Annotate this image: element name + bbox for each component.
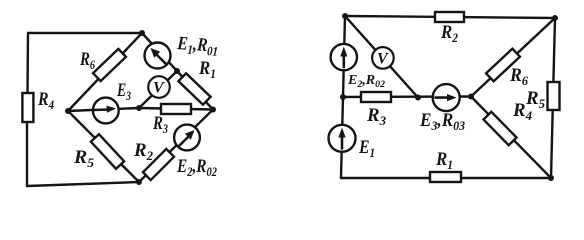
- wire bottom vertex B to right vertex through R2 and E2: [139, 110, 213, 183]
- svg-text:R1: R1: [435, 149, 453, 172]
- resistor R6 (right): [486, 49, 520, 82]
- node C: [136, 105, 142, 111]
- source E3 (left): [93, 98, 119, 124]
- wire diagonal N to bottom-right through R4: [471, 97, 551, 179]
- resistor R6: [93, 49, 126, 81]
- wire node C to right vertex through R3: [139, 108, 213, 110]
- wire right-circuit bottom: [341, 177, 551, 179]
- wire junction J to right vertex through R1: [177, 71, 213, 110]
- resistor R2 (right): [435, 12, 464, 22]
- source E1 (right): [329, 125, 356, 152]
- svg-text:E3: E3: [116, 80, 131, 103]
- svg-text:R2: R2: [440, 22, 458, 45]
- svg-text:R3: R3: [152, 113, 168, 136]
- node T: [139, 30, 145, 36]
- node TL (right circuit): [342, 13, 348, 19]
- svg-text:E1: E1: [358, 137, 375, 160]
- resistor R3 (right): [361, 92, 391, 102]
- svg-text:R3: R3: [366, 105, 386, 128]
- svg-text:R1: R1: [198, 58, 216, 81]
- svg-text:E1,R01: E1,R01: [176, 33, 219, 59]
- svg-text:R2: R2: [133, 140, 153, 163]
- wire left vertex L to node C: [68, 108, 139, 111]
- resistor R5: [91, 134, 124, 169]
- resistor R2: [143, 149, 174, 180]
- wire left-circuit left edge: [27, 33, 28, 186]
- wire right-circuit top: [345, 16, 555, 18]
- svg-text:R4: R4: [37, 89, 54, 112]
- svg-text:E3,R03: E3,R03: [419, 110, 465, 133]
- source E2,R02 (right): [331, 44, 357, 70]
- svg-text:E2,R02: E2,R02: [347, 72, 385, 90]
- wire diagonal TL to M through voltmeter: [345, 16, 418, 98]
- voltmeter V (left): [148, 76, 170, 98]
- node N: [468, 94, 474, 100]
- node L: [65, 108, 71, 114]
- node P: [340, 94, 346, 100]
- svg-text:E2,R02: E2,R02: [176, 156, 217, 179]
- node R (right vertex): [210, 107, 216, 113]
- wire left vertex L to bottom vertex B through R5: [68, 111, 139, 182]
- svg-text:V: V: [377, 51, 389, 68]
- resistor R3: [161, 104, 191, 114]
- svg-text:V: V: [153, 80, 165, 97]
- node M: [415, 95, 421, 101]
- wire left vertex L to node T through R6: [68, 33, 142, 111]
- node B: [136, 179, 142, 185]
- node J: [174, 68, 180, 74]
- source E3,R03 (right): [433, 84, 460, 111]
- node BR: [548, 175, 554, 181]
- wire right-circuit left edge: [341, 16, 345, 178]
- source E2,R02 (left): [174, 125, 200, 151]
- svg-text:R6: R6: [509, 65, 528, 88]
- svg-text:R6: R6: [79, 49, 95, 72]
- resistor R4 (right): [483, 112, 516, 145]
- resistor R4: [22, 93, 33, 122]
- resistor R1 (right): [430, 172, 461, 182]
- node TR: [552, 15, 558, 21]
- wire middle P to N: [343, 95, 471, 98]
- resistor R1: [178, 73, 210, 104]
- wire junction J to node C through voltmeter: [139, 71, 177, 108]
- wire node T to E1 branch: [142, 33, 177, 71]
- wire left-circuit bottom: [27, 182, 139, 186]
- wire right-circuit right edge: [551, 18, 555, 178]
- wire left-circuit top: [28, 32, 142, 34]
- voltmeter V (right): [372, 47, 394, 69]
- resistor R5 (right): [548, 82, 560, 110]
- svg-text:R5: R5: [73, 147, 95, 170]
- wire diagonal N to top-right through R6: [471, 18, 555, 97]
- source E1,R01: [145, 43, 171, 69]
